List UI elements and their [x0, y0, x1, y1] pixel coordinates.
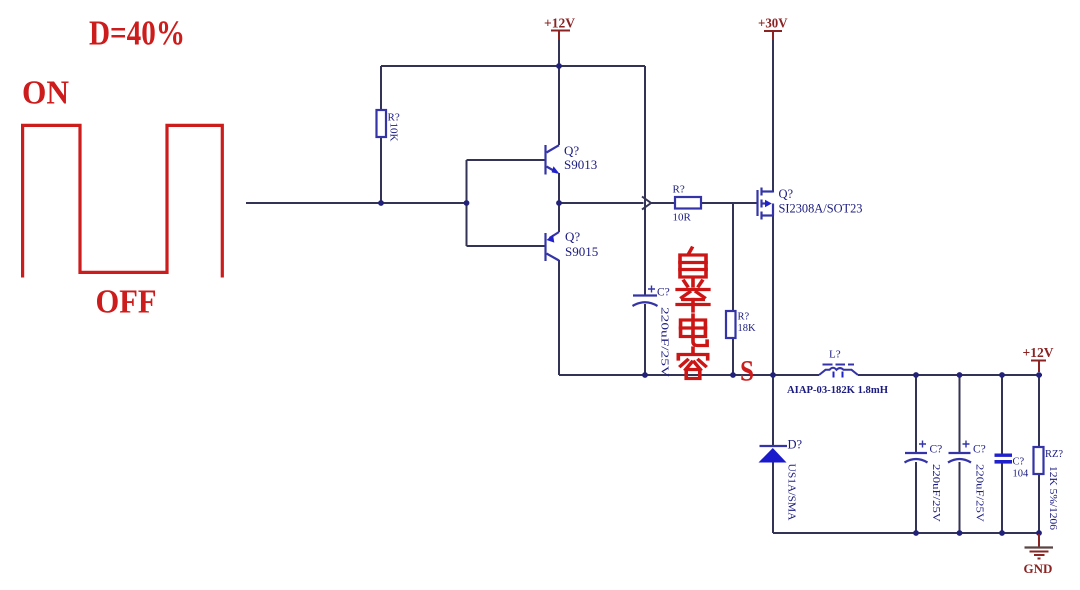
svg-text:OFF: OFF	[96, 284, 157, 321]
svg-text:GND: GND	[1024, 561, 1053, 576]
svg-text:R?: R?	[738, 312, 750, 323]
svg-text:+12V: +12V	[544, 17, 575, 32]
svg-text:R?: R?	[673, 184, 685, 196]
svg-text:S: S	[740, 355, 754, 388]
svg-text:D=40%: D=40%	[89, 14, 185, 53]
svg-text:C?: C?	[930, 444, 943, 456]
svg-text:D?: D?	[788, 438, 803, 452]
svg-text:12K 5%/1206: 12K 5%/1206	[1047, 466, 1058, 530]
svg-text:+12V: +12V	[1023, 346, 1054, 361]
svg-text:ON: ON	[22, 75, 69, 112]
svg-text:10R: 10R	[673, 212, 692, 224]
svg-text:220uF/25V: 220uF/25V	[659, 307, 670, 378]
svg-text:C?: C?	[973, 444, 986, 456]
svg-text:L?: L?	[829, 349, 841, 361]
svg-text:RZ?: RZ?	[1045, 449, 1063, 460]
svg-text:C?: C?	[657, 287, 670, 299]
svg-text:220uF/25V: 220uF/25V	[974, 464, 985, 523]
svg-text:Q?: Q?	[565, 229, 580, 244]
svg-text:C?: C?	[1013, 457, 1025, 468]
svg-text:AIAP-03-182K 1.8mH: AIAP-03-182K 1.8mH	[787, 385, 888, 396]
svg-text:220uF/25V: 220uF/25V	[930, 464, 941, 523]
svg-text:18K: 18K	[738, 323, 757, 334]
svg-text:SI2308A/SOT23: SI2308A/SOT23	[779, 202, 863, 216]
svg-text:+30V: +30V	[758, 17, 788, 32]
svg-text:104: 104	[1013, 469, 1030, 480]
svg-text:Q?: Q?	[564, 143, 579, 158]
svg-text:Q?: Q?	[779, 187, 794, 201]
svg-text:US1A/SMA: US1A/SMA	[786, 464, 798, 521]
svg-text:10K: 10K	[388, 123, 400, 142]
svg-text:S9013: S9013	[564, 157, 597, 172]
svg-text:S9015: S9015	[565, 244, 598, 259]
